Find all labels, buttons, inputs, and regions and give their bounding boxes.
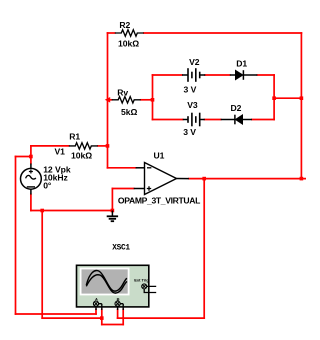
oscilloscope XSC1 [77,265,157,310]
svg-text:3 V: 3 V [184,85,197,95]
wire D1 right [257,74,274,76]
wire R1 row right [98,145,108,147]
wire ground row [31,210,113,212]
wire Rv row left [108,99,112,101]
wire diode tap [274,97,301,99]
wire V2-D1 middle [205,74,230,76]
wire V2 row left [153,74,183,76]
svg-text:10kΩ: 10kΩ [71,151,92,161]
resistor R2 [115,30,144,36]
source V1 [21,164,42,195]
wire channel B row [118,317,205,319]
wire ground to scope row [42,317,102,319]
svg-text:XSC1: XSC1 [112,244,130,252]
svg-text:D1: D1 [236,59,247,69]
wire Rv left arrow [105,97,110,103]
node Rv right junction [151,98,155,102]
wire B minus drop [122,310,124,325]
resistor R1 [69,143,98,149]
wire A minus B minus row [102,324,123,326]
wire inverting input row [108,167,136,169]
node ground drop junction [40,209,44,213]
wire V3 row left [153,119,183,121]
node output junction [202,177,206,181]
svg-text:A: A [95,296,98,301]
wire scope tap row [16,156,31,158]
svg-text:B: B [117,296,120,301]
wire noninverting input row [112,188,133,190]
svg-text:U1: U1 [154,151,165,161]
svg-text:R2: R2 [119,20,130,30]
svg-text:Rv: Rv [117,88,128,98]
svg-text:10kΩ: 10kΩ [118,38,139,48]
node right column output junction [300,177,304,181]
wire R2 row left [108,32,115,34]
wire inverting column [107,33,109,168]
svg-text:D2: D2 [231,103,242,113]
svg-text:V2: V2 [189,57,200,67]
svg-text:OPAMP_3T_VIRTUAL: OPAMP_3T_VIRTUAL [118,196,200,206]
svg-text:0°: 0° [43,181,52,191]
diode D2 [221,115,252,125]
wire R2 row right [144,32,302,34]
wire V1 bottom column [30,195,32,211]
resistor Rv [112,97,141,103]
wire A plus drop [95,310,97,315]
scope waveform [86,271,127,292]
svg-text:V3: V3 [187,100,198,110]
wire right column [300,33,302,179]
wire A minus drop [101,310,103,325]
svg-text:R1: R1 [69,132,80,142]
wire plus input column [111,189,113,211]
svg-text:Ext Trig: Ext Trig [134,278,149,283]
svg-text:5kΩ: 5kΩ [121,107,137,117]
wire output row [189,178,306,180]
wire channel A row [16,313,97,315]
wire ground drop column [41,211,43,319]
ground [107,211,118,222]
node scope tap junction [29,155,33,159]
wire diode right column [273,75,275,120]
battery V2 [182,68,205,82]
node diode mid junction [272,96,276,100]
diode D1 [230,70,258,80]
op-amp U1 [134,163,189,195]
svg-text:V1: V1 [55,147,66,157]
wire V1 top column [30,146,32,164]
wire B plus drop [117,310,119,319]
wire R1 row left [31,145,69,147]
wire D2 right [252,119,274,121]
wire Rv row right [141,99,153,101]
node right column tap junction [300,96,304,100]
wire output to B column [203,179,205,319]
node R1 inverting junction [106,144,110,148]
wire V3-D2 middle [205,119,221,121]
battery V3 [183,113,205,127]
wire diode left column [152,75,154,120]
node A minus junction [100,316,104,320]
node ground corner junction [111,209,115,213]
wire left column [15,157,17,315]
svg-text:3 V: 3 V [183,127,196,137]
